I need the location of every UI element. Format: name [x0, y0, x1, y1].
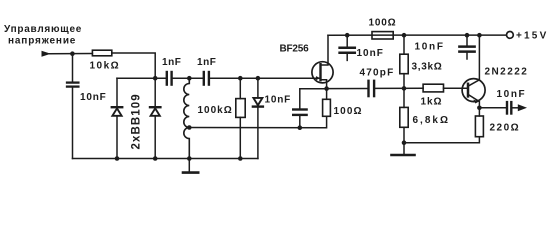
resistor 3.3kΩ — [400, 54, 408, 73]
wire: output cap to arrow — [511, 107, 518, 109]
wire: tank row left segment — [117, 77, 167, 79]
svg-text:220Ω: 220Ω — [490, 122, 521, 133]
node: bypass cap bottom junction — [298, 125, 303, 130]
wire: diode D1 top — [116, 78, 118, 106]
svg-text:10nF: 10nF — [497, 89, 527, 100]
resistor 10kΩ — [92, 50, 111, 56]
wire: row between 1nF caps — [172, 77, 204, 79]
node: 100k bottom — [238, 156, 243, 161]
diode D2 (varactor) — [150, 107, 160, 116]
node: collector top — [477, 33, 482, 38]
svg-text:Управляющее: Управляющее — [4, 24, 82, 35]
svg-text:2xBB109: 2xBB109 — [131, 93, 143, 149]
capacitor 10nF (source bypass) — [293, 110, 306, 115]
wire: emitter to output cap — [479, 107, 506, 109]
svg-text:BF256: BF256 — [280, 44, 310, 55]
wire: 470pF to 1k — [374, 87, 423, 89]
input arrow — [42, 51, 51, 57]
wire: source to 100R — [326, 89, 328, 100]
svg-text:10nF: 10nF — [80, 92, 107, 103]
capacitor 10nF (rail decoupling left) — [340, 35, 355, 60]
supply rail +15V — [328, 34, 506, 36]
terminal +15V — [507, 32, 514, 39]
capacitor 10nF (rail decoupling right) — [459, 35, 474, 59]
svg-text:+15V: +15V — [516, 31, 548, 42]
svg-text:2N2222: 2N2222 — [485, 66, 529, 77]
ground symbol (left) — [183, 159, 198, 173]
wire: 3.3k top — [403, 35, 405, 54]
svg-text:6,8kΩ: 6,8kΩ — [413, 115, 450, 126]
node: diode D3 top junction — [256, 76, 261, 81]
wire: emitter to 220R — [478, 108, 480, 116]
node: decoupling cap 1 — [345, 33, 350, 38]
node: input junction — [70, 51, 75, 56]
svg-text:10nF: 10nF — [265, 95, 292, 106]
wire: coil tap rail to source network — [189, 116, 326, 128]
resistor 100kΩ — [236, 99, 245, 118]
capacitor 10nF (output) — [507, 102, 511, 113]
node: decoupling cap 2 — [465, 33, 470, 38]
resistor 100Ω (source) — [323, 99, 331, 116]
svg-text:100Ω: 100Ω — [369, 17, 397, 28]
wire: diode D3 top — [257, 78, 259, 98]
node: 100k top junction — [238, 76, 243, 81]
svg-text:470pF: 470pF — [360, 67, 395, 78]
svg-text:1nF: 1nF — [162, 57, 181, 68]
wire: capacitor C1 down to ground rail — [72, 87, 74, 159]
label: Управляющее напряжение — [4, 24, 82, 47]
wire: diode D1 bottom — [116, 116, 118, 159]
node: coil bottom / ground — [187, 156, 192, 161]
node: coil top junction — [187, 76, 192, 81]
wire: bypass cap bottom — [299, 115, 301, 128]
diode D3 — [253, 98, 263, 107]
wire: 1k to base — [444, 87, 468, 89]
svg-text:1nF: 1nF — [197, 57, 216, 68]
node: JFET source junction — [324, 86, 329, 91]
ground rail (bottom left) — [73, 158, 258, 160]
svg-text:3,3kΩ: 3,3kΩ — [412, 61, 443, 72]
node: 3.3k top — [402, 33, 407, 38]
capacitor 1nF (second) — [204, 72, 209, 85]
svg-text:напряжение: напряжение — [8, 36, 76, 47]
wire: input arrow to resistor 10k — [49, 53, 92, 55]
svg-text:10nF: 10nF — [415, 41, 445, 52]
transistor Q2 2N2222 — [462, 35, 485, 108]
resistor 1kΩ — [423, 84, 443, 92]
wire: 100k top — [239, 78, 241, 98]
wire: source row to bypass cap — [300, 89, 327, 108]
wire: tank row right segment to JFET gate — [209, 77, 321, 79]
resistor 100Ω (drain rail) — [372, 32, 393, 39]
wire: 100k bottom — [239, 117, 241, 158]
resistor 6,8kΩ — [400, 107, 408, 127]
wire: source row to 470pF — [327, 88, 369, 90]
svg-text:100Ω: 100Ω — [334, 106, 363, 117]
node: D2 bottom — [153, 156, 158, 161]
node: D1 bottom — [115, 156, 120, 161]
inductor L1 — [184, 78, 190, 158]
wire: bottom right rail — [404, 137, 479, 143]
wire: diode D2 bottom — [154, 116, 156, 159]
capacitor 470pF — [369, 81, 375, 96]
wire: diode D3 bottom to ground rail — [257, 107, 259, 159]
wire: diode D2 top — [154, 78, 156, 106]
svg-text:10kΩ: 10kΩ — [90, 61, 121, 72]
node: 10k/diode2 junction — [153, 76, 158, 81]
node: emitter junction — [477, 106, 482, 111]
svg-text:10nF: 10nF — [357, 48, 384, 59]
wire: input node down to capacitor C1 — [72, 54, 74, 83]
diode D1 (varactor) — [112, 107, 122, 116]
svg-text:1kΩ: 1kΩ — [421, 96, 443, 107]
output arrow — [518, 104, 527, 111]
wire: 3.3k bottom to base row — [403, 74, 405, 89]
JFET Q1 BF256 — [312, 35, 333, 88]
ground symbol (right) — [392, 143, 415, 155]
resistor 220Ω — [475, 116, 483, 137]
node: right ground junction — [402, 140, 407, 145]
svg-text:100kΩ: 100kΩ — [198, 105, 233, 116]
wire: 10k to tank row — [112, 53, 155, 78]
capacitor 10nF (input) — [67, 83, 78, 87]
node: coil tap — [187, 125, 192, 130]
node: base network junction — [402, 86, 407, 91]
wire: 6.8k top — [403, 88, 405, 107]
capacitor 1nF (first) — [167, 72, 172, 85]
wire: 6.8k bottom — [403, 127, 405, 142]
